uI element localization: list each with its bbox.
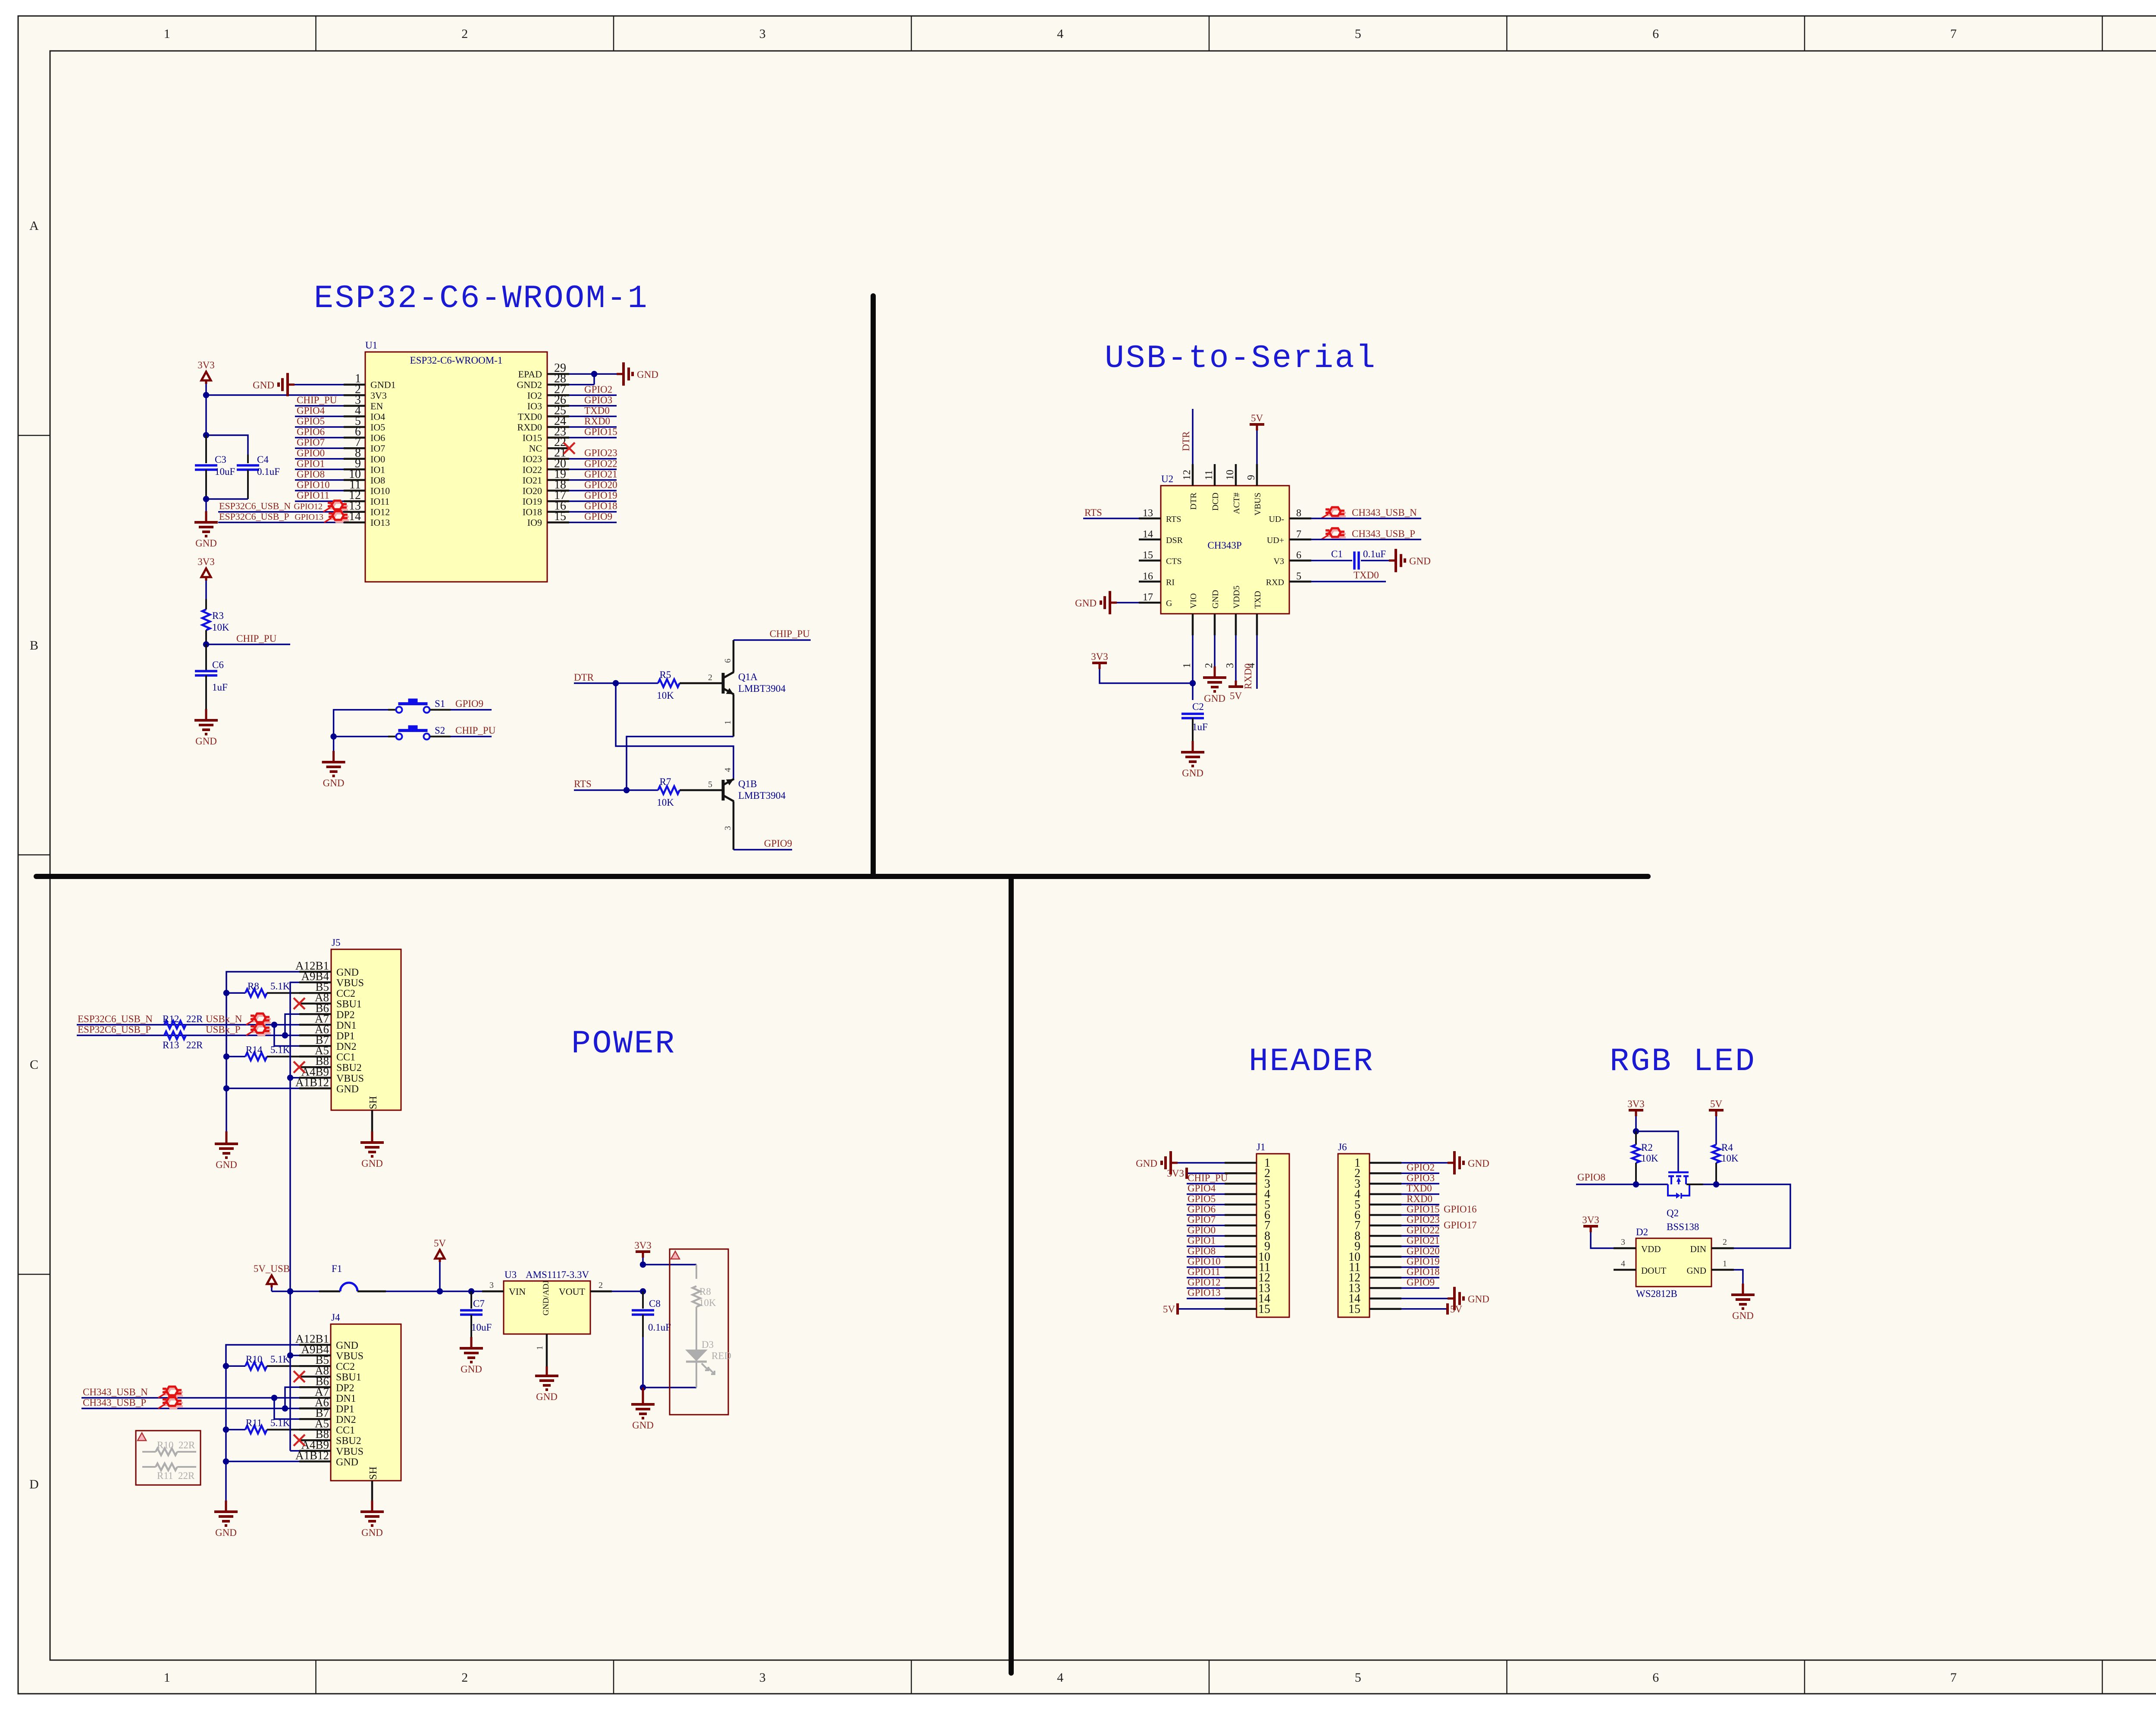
J5 pin A12B1 GND <box>299 971 331 973</box>
svg-text:DP2: DP2 <box>336 1382 354 1394</box>
wire / net label RTS <box>574 789 658 791</box>
svg-text:GPIO20: GPIO20 <box>1407 1246 1440 1256</box>
svg-text:DSR: DSR <box>1166 536 1183 545</box>
svg-text:GND: GND <box>215 1527 237 1538</box>
svg-text:GPIO11: GPIO11 <box>297 490 329 501</box>
power gnd at J1 pin1 <box>1178 1162 1225 1164</box>
J5 pin B8 SBU2 <box>299 1066 331 1068</box>
wire Q1A emitter to RTS <box>627 737 733 790</box>
wire / net label GPIO22 (U1 pin 20) <box>569 469 617 471</box>
power port 3V3 (D2 VDD) <box>1583 1225 1598 1228</box>
wire / net label TXD0 (U1 pin 25) <box>569 416 617 418</box>
svg-text:GND: GND <box>336 967 359 978</box>
U1 pin 13 IO12 <box>344 511 365 513</box>
power port 5V_USB <box>267 1275 276 1284</box>
svg-text:GND: GND <box>1732 1310 1754 1321</box>
svg-text:DCD: DCD <box>1211 493 1220 511</box>
svg-text:GPIO19: GPIO19 <box>1407 1256 1440 1267</box>
wire C8 down <box>642 1337 644 1388</box>
svg-text:10K: 10K <box>657 797 674 808</box>
power gnd at U1 pin29 <box>617 373 624 375</box>
svg-text:11: 11 <box>1203 470 1215 480</box>
wire / net label GPIO10 (J1 pin 11) <box>1187 1266 1225 1268</box>
J5 pin A6 DP1 <box>299 1034 331 1036</box>
junction 5V rail <box>437 1288 443 1294</box>
wire / net label GPIO23 (U1 pin 21) <box>569 458 617 460</box>
wire / net label GPIO18 (J6 pin 12) <box>1401 1277 1439 1278</box>
svg-text:C8: C8 <box>649 1298 661 1309</box>
J1 pin 2 <box>1225 1172 1257 1174</box>
wire button common <box>334 710 388 751</box>
svg-text:HEADER: HEADER <box>1249 1043 1374 1080</box>
svg-text:13: 13 <box>1143 508 1153 519</box>
section divider vertical (POWER / HEADER) <box>1009 876 1014 1673</box>
svg-text:C: C <box>30 1058 38 1072</box>
svg-text:5V: 5V <box>1230 691 1242 701</box>
J1 pin 9 <box>1225 1245 1257 1247</box>
svg-text:GND: GND <box>1204 693 1225 704</box>
wire / net label GPIO18 (U1 pin 16) <box>569 511 617 513</box>
J6 pin 12 <box>1369 1277 1401 1279</box>
svg-text:C2: C2 <box>1192 701 1204 712</box>
svg-text:GND: GND <box>1687 1265 1707 1276</box>
svg-text:ACT#: ACT# <box>1232 493 1241 514</box>
svg-text:VDD5: VDD5 <box>1232 586 1241 609</box>
svg-text:EPAD: EPAD <box>518 369 542 380</box>
svg-text:GND1: GND1 <box>370 380 396 390</box>
svg-text:VOUT: VOUT <box>559 1286 586 1297</box>
wire J5 VBUS A4B9 to bus <box>290 1077 299 1079</box>
svg-text:1uF: 1uF <box>212 682 228 693</box>
U1 pin 24 RXD0 <box>547 426 569 428</box>
svg-text:GND2: GND2 <box>517 380 542 390</box>
svg-text:22R: 22R <box>186 1014 203 1024</box>
svg-text:CC2: CC2 <box>336 988 355 999</box>
svg-text:1uF: 1uF <box>1192 722 1208 732</box>
differential pair marker (CH343_USB_P) <box>158 1397 183 1409</box>
svg-text:RTS: RTS <box>574 779 592 789</box>
wire / net label GPIO21 (J6 pin 9) <box>1401 1246 1439 1247</box>
J4 pin A5 CC1 <box>299 1428 331 1431</box>
svg-text:5: 5 <box>708 780 712 789</box>
U2 pin 17 G <box>1139 602 1161 604</box>
svg-text:GPIO7: GPIO7 <box>297 437 325 448</box>
wire / net label GPIO0 (J1 pin 8) <box>1187 1235 1225 1237</box>
power port 3V3 (U2 VIO) <box>1092 662 1107 664</box>
svg-text:1: 1 <box>164 27 170 41</box>
svg-text:14: 14 <box>349 510 361 523</box>
svg-text:2: 2 <box>599 1281 603 1290</box>
wire / net label CHIP_PU (J1 pin 3) <box>1187 1183 1225 1185</box>
svg-text:IO6: IO6 <box>370 433 385 443</box>
svg-text:GPIO5: GPIO5 <box>297 416 325 427</box>
svg-text:5V: 5V <box>1163 1304 1175 1315</box>
U1 pin 22 NC <box>547 447 569 449</box>
svg-text:TXD0: TXD0 <box>584 405 610 416</box>
svg-text:CH343_USB_P: CH343_USB_P <box>1352 528 1415 539</box>
svg-text:5V: 5V <box>1251 413 1263 424</box>
junction cap gnd <box>203 496 209 502</box>
wire J4 DP1 to DP2 <box>285 1387 299 1408</box>
junction J5 GND bus <box>223 1085 229 1091</box>
junction J4 DN1 <box>271 1395 277 1401</box>
svg-text:3V3: 3V3 <box>1167 1168 1184 1179</box>
transistor Q1A LMBT3904 <box>722 673 725 694</box>
U1 pin 23 IO15 <box>547 436 569 439</box>
svg-text:GND: GND <box>632 1420 654 1431</box>
U2 pin 11 DCD <box>1214 464 1216 486</box>
svg-text:F1: F1 <box>332 1263 342 1274</box>
svg-text:10uF: 10uF <box>215 466 235 477</box>
svg-text:SH: SH <box>368 1466 379 1480</box>
D2 pin 3 VDD <box>1614 1247 1636 1250</box>
wire gnd node to LED (bottom) <box>643 1387 696 1388</box>
power gnd at J6 pin14 <box>1401 1298 1448 1300</box>
J4 pin A4B9 VBUS <box>299 1450 331 1452</box>
wire U1 pin28 to pin29 net <box>569 384 594 386</box>
wire U2 pin1 down <box>1192 635 1194 700</box>
U2 pin 3 VDD5 <box>1235 614 1237 635</box>
resistor R5 10K <box>658 679 680 687</box>
svg-text:3: 3 <box>759 27 766 41</box>
svg-text:GPIO23: GPIO23 <box>1407 1214 1440 1225</box>
svg-text:RGB LED: RGB LED <box>1610 1043 1756 1080</box>
svg-text:A1B12: A1B12 <box>295 1076 329 1089</box>
svg-text:2: 2 <box>708 673 712 682</box>
wire / net label CHIP_PU (U1 pin 3) <box>295 405 344 407</box>
svg-text:DOUT: DOUT <box>1641 1265 1666 1276</box>
pushbutton S1 <box>388 709 396 711</box>
svg-text:USB-to-Serial: USB-to-Serial <box>1105 340 1377 377</box>
U2 pin 6 V3 <box>1289 559 1311 562</box>
J6 pin 14 <box>1369 1297 1401 1300</box>
J4 VBUS bus wire <box>290 1355 299 1356</box>
J5 pin A1B12 GND <box>299 1087 331 1089</box>
svg-text:4: 4 <box>1057 1670 1063 1685</box>
J4 pin B6 DP2 <box>299 1386 331 1388</box>
U2 pin 12 DTR <box>1192 464 1194 486</box>
svg-text:R11: R11 <box>246 1418 262 1428</box>
mosfet Q2 BSS138 <box>1668 1171 1689 1174</box>
J4 pin A7 DN1 <box>299 1397 331 1399</box>
svg-text:6: 6 <box>723 659 733 663</box>
svg-text:SBU1: SBU1 <box>336 999 362 1010</box>
svg-text:VBUS: VBUS <box>336 1073 364 1084</box>
svg-text:R8: R8 <box>248 981 259 992</box>
U1 pin 5 IO5 <box>344 426 365 428</box>
J5 pin B5 CC2 <box>299 992 331 994</box>
svg-text:14: 14 <box>1143 529 1153 540</box>
U2 pin 15 CTS <box>1139 559 1161 562</box>
wire / net label RXD0 (J6 pin 5) <box>1401 1204 1439 1206</box>
warning triangle (series resistors) <box>138 1433 146 1441</box>
svg-text:DN2: DN2 <box>336 1041 357 1052</box>
svg-text:7: 7 <box>1950 1670 1957 1685</box>
svg-text:GPIO0: GPIO0 <box>1188 1224 1216 1235</box>
svg-text:VBUS: VBUS <box>336 1446 364 1457</box>
svg-text:R12: R12 <box>163 1014 179 1024</box>
svg-text:15: 15 <box>1258 1303 1270 1316</box>
U1 pin 29 EPAD <box>547 373 569 375</box>
svg-text:R8: R8 <box>699 1286 711 1297</box>
differential pair marker (USBx_P) <box>246 1024 271 1036</box>
svg-text:GND: GND <box>195 538 217 549</box>
USB-C connector J5 body <box>331 949 401 1110</box>
svg-text:GND: GND <box>1136 1158 1157 1169</box>
svg-text:1: 1 <box>535 1346 545 1350</box>
svg-text:6: 6 <box>1652 1670 1659 1685</box>
wire C4 to gnd rail <box>206 498 248 500</box>
section divider vertical (ESP32 / USB-to-Serial) <box>871 296 876 876</box>
svg-text:3: 3 <box>759 1670 766 1685</box>
capacitor C1 0.1uF <box>1311 560 1352 562</box>
svg-text:U1: U1 <box>365 340 377 351</box>
J4 pin A8 SBU1 <box>299 1375 331 1378</box>
wire / net label GPIO1 (U1 pin 9) <box>295 469 344 471</box>
svg-text:DP1: DP1 <box>336 1031 355 1042</box>
wire Q2 drain to R4 <box>1686 1184 1703 1185</box>
svg-text:0.1uF: 0.1uF <box>257 466 280 477</box>
svg-text:IO23: IO23 <box>523 454 542 465</box>
U1 pin 28 GND2 <box>547 383 569 386</box>
ground under D2 <box>1742 1284 1744 1295</box>
junction DN1 <box>271 1022 277 1028</box>
svg-text:GND: GND <box>1075 598 1097 609</box>
svg-text:GPIO0: GPIO0 <box>297 448 325 458</box>
svg-text:NC: NC <box>529 443 542 454</box>
wire J4 DN1 to DN2 <box>274 1398 299 1419</box>
wire / net label GPIO15 (J6 pin 6) <box>1401 1214 1439 1216</box>
svg-text:10K: 10K <box>1721 1153 1739 1164</box>
wire / net label DTR <box>574 682 658 684</box>
svg-text:3V3: 3V3 <box>1627 1099 1645 1109</box>
J4 gnd bus wire <box>226 1345 299 1501</box>
svg-text:CC2: CC2 <box>336 1361 355 1372</box>
U1 pin 3 EN <box>344 405 365 407</box>
not-fitted series resistor box <box>136 1431 201 1485</box>
svg-text:GPIO22: GPIO22 <box>584 458 617 469</box>
svg-text:GPIO2: GPIO2 <box>1407 1162 1435 1173</box>
junction J4 CC2 bus <box>223 1363 229 1369</box>
junction J4 CC1 bus <box>223 1426 229 1432</box>
J4 pin B7 DN2 <box>299 1418 331 1420</box>
svg-text:IO11: IO11 <box>370 496 389 507</box>
svg-text:GPIO9: GPIO9 <box>764 838 792 849</box>
wire / net label GPIO13 (J1 pin 14) <box>1187 1298 1225 1300</box>
svg-text:R11 22R: R11 22R <box>157 1470 195 1481</box>
wire / net label RXD0 (U1 pin 24) <box>569 426 617 428</box>
svg-text:3V3: 3V3 <box>197 360 215 370</box>
wire / net label CH343_USB_N (to J4) <box>81 1397 299 1399</box>
svg-text:Q2: Q2 <box>1667 1208 1679 1218</box>
svg-text:R10: R10 <box>246 1354 262 1365</box>
svg-text:CC1: CC1 <box>336 1425 355 1436</box>
U2 pin 16 RI <box>1139 581 1161 583</box>
svg-text:D3: D3 <box>702 1339 714 1350</box>
differential pair marker (pin13) <box>323 501 348 512</box>
wire / net label CH343_USB_P (to J4) <box>81 1408 299 1410</box>
wire / net label GPIO19 (U1 pin 17) <box>569 500 617 502</box>
optional LED region box <box>670 1249 728 1415</box>
junction J4 DP1 <box>282 1405 288 1411</box>
svg-text:GPIO6: GPIO6 <box>297 427 325 437</box>
svg-text:R5: R5 <box>660 669 671 680</box>
wire / net label GPIO20 (U1 pin 18) <box>569 490 617 492</box>
svg-text:GND: GND <box>336 1340 358 1351</box>
power gnd at J6 pin1 <box>1401 1162 1448 1164</box>
svg-text:CHIP_PU: CHIP_PU <box>455 725 496 736</box>
capacitor C8 0.1uF <box>642 1291 644 1309</box>
svg-text:GPIO23: GPIO23 <box>584 448 617 458</box>
wire / net label GPIO7 (U1 pin 7) <box>295 447 344 449</box>
junction 3V3 top <box>640 1262 646 1268</box>
wire / net label GPIO9 (Q1B collector) <box>733 849 792 851</box>
power port 3V3 (U1 supply) <box>201 372 211 380</box>
svg-text:VBUS: VBUS <box>1253 493 1263 515</box>
svg-text:IO3: IO3 <box>527 401 542 411</box>
J5 pin A4B9 VBUS <box>299 1077 331 1079</box>
U1 pin 14 IO13 <box>344 521 365 524</box>
junction VOUT node <box>640 1288 646 1294</box>
svg-text:3: 3 <box>1225 663 1236 668</box>
svg-text:CH343_USB_P: CH343_USB_P <box>83 1397 146 1408</box>
svg-text:C7: C7 <box>473 1298 485 1309</box>
ground at J4 SH <box>371 1501 373 1512</box>
wire / net label GPIO8 (J1 pin 10) <box>1187 1256 1225 1258</box>
J5 pin A7 DN1 <box>299 1024 331 1026</box>
U1 pin 27 IO2 <box>547 394 569 396</box>
svg-text:S1: S1 <box>435 698 445 709</box>
J4 pin B5 CC2 <box>299 1365 331 1367</box>
J4 pin A6 DP1 <box>299 1407 331 1410</box>
svg-text:GND/ADJ: GND/ADJ <box>542 1281 551 1315</box>
svg-text:RXD0: RXD0 <box>517 422 542 433</box>
svg-text:10K: 10K <box>212 622 229 633</box>
U1 pin 12 IO11 <box>344 500 365 502</box>
wire DN1 to DN2 <box>274 1025 299 1046</box>
svg-text:GPIO20: GPIO20 <box>584 480 617 490</box>
differential pair marker (pin14) <box>324 511 349 522</box>
svg-text:3V3: 3V3 <box>634 1240 652 1251</box>
svg-text:3: 3 <box>723 826 733 830</box>
wire / net label ESP32C6_USB_P (to J5) <box>77 1035 299 1036</box>
svg-text:5: 5 <box>1355 1670 1361 1685</box>
svg-text:GPIO4: GPIO4 <box>297 405 325 416</box>
D2 pin 2 DIN <box>1711 1247 1734 1250</box>
J6 pin 10 <box>1369 1256 1401 1258</box>
wire / net label GPIO19 (J6 pin 11) <box>1401 1266 1439 1268</box>
svg-text:5: 5 <box>1296 571 1301 582</box>
svg-text:GND: GND <box>323 778 345 788</box>
regulator U3 body <box>504 1281 590 1334</box>
svg-text:RTS: RTS <box>1166 515 1181 524</box>
U2 pin 8 UD- <box>1289 518 1311 520</box>
warning triangle (LED region) <box>671 1251 680 1259</box>
wire R5 to Q1A base <box>680 682 723 684</box>
svg-text:DP1: DP1 <box>336 1404 354 1415</box>
junction RTS / Q1A emitter <box>624 787 630 793</box>
svg-text:GPIO10: GPIO10 <box>297 480 330 490</box>
U1 pin 26 IO3 <box>547 405 569 407</box>
U2 pin 1 VIO <box>1192 614 1194 635</box>
svg-text:UD+: UD+ <box>1267 536 1284 545</box>
svg-text:J6: J6 <box>1338 1142 1347 1152</box>
U2 pin 2 GND <box>1214 614 1216 635</box>
power port 3V3 (EN pullup) <box>201 568 211 577</box>
svg-text:7: 7 <box>1950 27 1957 41</box>
svg-text:CHIP_PU: CHIP_PU <box>236 633 277 644</box>
svg-text:GND: GND <box>536 1391 558 1402</box>
svg-text:10uF: 10uF <box>471 1322 492 1333</box>
svg-text:IO7: IO7 <box>370 443 385 454</box>
svg-text:GPIO19: GPIO19 <box>584 490 617 501</box>
svg-text:G: G <box>1166 599 1172 608</box>
U1 pin 1 GND1 <box>344 383 365 386</box>
svg-text:GPIO18: GPIO18 <box>584 501 617 512</box>
svg-text:5V: 5V <box>1450 1304 1463 1315</box>
no-connect J4 SBU1 <box>294 1371 305 1382</box>
svg-text:C3: C3 <box>215 454 226 465</box>
svg-text:RXD0: RXD0 <box>1407 1193 1432 1204</box>
svg-text:DN1: DN1 <box>336 1020 357 1031</box>
U2 pin 9 VBUS <box>1256 464 1258 486</box>
svg-text:5V: 5V <box>1710 1099 1723 1109</box>
svg-text:GND: GND <box>195 736 217 747</box>
U2 pin 13 RTS <box>1139 518 1161 520</box>
wire 3V3 to U1 pin2 <box>206 394 344 396</box>
svg-text:8: 8 <box>1296 508 1301 519</box>
svg-text:GND: GND <box>361 1158 383 1169</box>
svg-text:DTR: DTR <box>1189 492 1198 510</box>
svg-text:12: 12 <box>1181 470 1193 480</box>
wire / net label GPIO9 (S1) <box>451 709 492 711</box>
svg-text:15: 15 <box>1348 1303 1360 1316</box>
junction C7 <box>468 1288 474 1294</box>
svg-text:GND: GND <box>1468 1294 1489 1305</box>
J1 pin 10 <box>1225 1256 1257 1258</box>
power port 5V (rail) <box>435 1250 445 1259</box>
svg-text:6: 6 <box>1296 550 1301 561</box>
svg-text:U3: U3 <box>505 1269 517 1280</box>
ground under J5 bus <box>226 1131 228 1144</box>
resistor R10 5.1K (CC2 pulldown) <box>226 1365 245 1367</box>
svg-text:GPIO15: GPIO15 <box>584 427 617 437</box>
svg-text:0.1uF: 0.1uF <box>648 1322 671 1333</box>
J6 pin 15 <box>1369 1308 1401 1310</box>
svg-text:IO0: IO0 <box>370 454 385 465</box>
svg-text:GPIO9: GPIO9 <box>455 698 483 709</box>
junction 3V3/pin2 <box>203 392 209 398</box>
U1 pin 19 IO21 <box>547 479 569 481</box>
svg-text:IO22: IO22 <box>523 464 542 475</box>
capacitor C2 1uF <box>1181 713 1204 715</box>
svg-text:GPIO21: GPIO21 <box>1407 1235 1440 1246</box>
svg-text:S2: S2 <box>435 725 445 736</box>
U1 pin 7 IO7 <box>344 447 365 449</box>
wire / net label GPIO6 (J1 pin 6) <box>1187 1214 1225 1216</box>
svg-text:AMS1117-3.3V: AMS1117-3.3V <box>526 1269 589 1280</box>
wire / net label GPIO10 (U1 pin 11) <box>295 490 344 492</box>
U1 pin 2 3V3 <box>344 394 365 396</box>
J4 pin A12B1 GND <box>299 1344 331 1346</box>
svg-text:POWER: POWER <box>571 1026 676 1062</box>
resistor R7 10K <box>658 786 680 794</box>
U1 pin 11 IO10 <box>344 490 365 492</box>
svg-text:GND: GND <box>1211 590 1220 609</box>
wire / net label GPIO1 (J1 pin 9) <box>1187 1246 1225 1247</box>
wire / net label CHIP_PU (S2) <box>451 736 492 738</box>
svg-text:C1: C1 <box>1331 549 1343 559</box>
